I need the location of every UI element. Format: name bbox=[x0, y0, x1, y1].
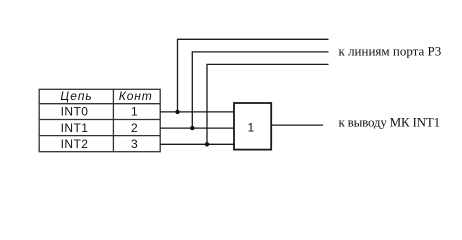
table row line 2 bbox=[39, 135, 160, 137]
svg-text:INT1: INT1 bbox=[61, 121, 89, 135]
table column divider bbox=[112, 89, 114, 151]
svg-text:Конт: Конт bbox=[119, 89, 153, 103]
junction dot on INT0 wire bbox=[175, 110, 179, 114]
wire INT0 branch up to port P3 bbox=[178, 39, 329, 112]
logic gate U1 (1 = OR) body bbox=[234, 103, 271, 150]
connector table X1 outline bbox=[39, 89, 160, 151]
table row line 1 bbox=[39, 119, 160, 121]
wire INT1 branch up to port P3 bbox=[192, 52, 328, 128]
junction dot on INT2 wire bbox=[205, 142, 209, 146]
svg-text:1: 1 bbox=[248, 120, 255, 134]
svg-text:2: 2 bbox=[131, 121, 138, 135]
wire gate output to MK INT1 bbox=[271, 124, 323, 126]
svg-text:INT2: INT2 bbox=[61, 137, 89, 151]
svg-text:3: 3 bbox=[131, 137, 138, 151]
table header separator bbox=[39, 103, 160, 105]
wire INT2 branch up to port P3 bbox=[207, 64, 329, 144]
wire row 1: table pin 1 to gate input bbox=[160, 111, 234, 113]
svg-text:INT0: INT0 bbox=[61, 105, 89, 119]
svg-text:Цепь: Цепь bbox=[60, 89, 92, 103]
wire row 3: table pin 3 to gate input bbox=[160, 143, 234, 145]
svg-text:1: 1 bbox=[131, 105, 138, 119]
wire row 2: table pin 2 to gate input bbox=[160, 127, 234, 129]
svg-text:к выводу МК INT1: к выводу МК INT1 bbox=[339, 115, 440, 130]
junction dot on INT1 wire bbox=[190, 126, 194, 130]
svg-text:к линиям порта Р3: к линиям порта Р3 bbox=[339, 44, 442, 59]
